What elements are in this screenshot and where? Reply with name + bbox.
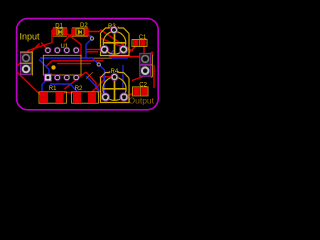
wire blue bottom-layer horizontal [40, 57, 128, 59]
trimmer R4 pad B [120, 93, 128, 101]
IC U1 pad 4 [73, 75, 79, 81]
wire blue U1 pin1 down [42, 79, 48, 92]
IC U1 pad 8 [45, 47, 51, 53]
wire blue via to R4 [99, 65, 106, 96]
IC U1 pad 6 [64, 47, 70, 53]
wire red R1 to R2 [64, 91, 73, 93]
wire red to R4 left pad [86, 72, 103, 94]
wire red input to D1 [26, 30, 52, 58]
wire blue R4 vertical [122, 65, 124, 88]
resistor R1 [39, 92, 66, 103]
wire red diag lower-left diamond [18, 73, 43, 95]
resistor R2 [72, 92, 99, 103]
wire red D2 to R3 [87, 30, 129, 49]
connector J1 pin 2 [21, 64, 32, 75]
trimmer R4 body [101, 73, 130, 103]
wire red D2 left diag [64, 34, 72, 42]
trimmer R3 wiper pad [110, 26, 117, 33]
board outline (Edge) [17, 19, 159, 110]
connector J2 pin 1 [140, 53, 151, 64]
svg-text:R1: R1 [49, 86, 57, 92]
connector J2 pin2 number [151, 52, 153, 55]
trimmer R3 notch [110, 27, 118, 29]
via B [97, 63, 100, 66]
svg-text:R2: R2 [75, 86, 83, 92]
wire blue via stub [93, 58, 99, 64]
trimmer R3 body [101, 28, 130, 56]
diode D1 [52, 28, 67, 36]
wire red U1 to R3 pad A [86, 49, 101, 51]
wire blue R3 small diag [110, 51, 114, 55]
IC U1 pad 2 [54, 75, 60, 81]
wire red diag upper-left diamond [18, 44, 40, 66]
wire red under D2 [70, 35, 92, 37]
wire red R2 to R4 wiper [92, 77, 111, 92]
svg-text:R3: R3 [108, 24, 116, 30]
trimmer R4 wiper pad [111, 73, 118, 80]
wire red mid horizontal A [46, 61, 103, 67]
svg-text:C2: C2 [139, 82, 147, 88]
trimmer R4 notch [110, 71, 118, 73]
IC U1 pin1 dot [51, 65, 55, 69]
svg-text:D2: D2 [80, 23, 88, 29]
airwire gold A [86, 72, 93, 79]
wire blue via link top [86, 33, 92, 58]
svg-text:Output: Output [129, 96, 155, 106]
diode D2 [71, 28, 89, 36]
svg-text:D1: D1 [55, 24, 63, 30]
svg-text:Input: Input [20, 32, 41, 42]
wire red D1 to U1 [65, 32, 81, 59]
wire red mid horizontal B [57, 63, 91, 65]
wire red C2 to R4 [126, 94, 133, 98]
connector J2 pin 2 [140, 65, 151, 76]
wire blue J1 to U1 pin1 [39, 60, 49, 79]
trimmer R3 pad A [100, 45, 108, 53]
connector J2 silk [151, 53, 153, 77]
IC U1 pad 3 [64, 75, 70, 81]
wire blue R4 left diag [86, 76, 99, 98]
wire red through R3 lower [101, 39, 133, 52]
capacitor C1 [132, 40, 147, 47]
IC U1 pad 7 [54, 47, 60, 53]
svg-text:R4: R4 [111, 69, 119, 75]
trimmer R4 pad A [101, 93, 109, 101]
via A [90, 37, 93, 40]
wire red right vertical [153, 65, 155, 88]
IC U1 pad 5 [73, 47, 79, 53]
connector J1 silk [20, 52, 33, 76]
wire red C1 right to J2 pin1 [143, 46, 145, 56]
connector J1 pin 1 [21, 53, 32, 64]
wire red under R3 to J2 [109, 56, 141, 58]
airwire gold B [94, 58, 112, 60]
IC U1 pad 1 square [44, 74, 51, 81]
IC U1 body [43, 55, 81, 75]
trimmer R3 pad B [119, 45, 127, 53]
wire red C1 left down [129, 47, 136, 53]
wire red R2 up to mid [65, 72, 87, 89]
wire blue under U1 bottom [50, 84, 77, 91]
capacitor C2 [133, 87, 149, 96]
svg-text:C1: C1 [139, 35, 147, 41]
wire red U1 to R3 pad B [86, 51, 98, 53]
wire red J2 pin2 to C2 [132, 71, 146, 81]
wire red into U1 pad8 [41, 43, 48, 50]
